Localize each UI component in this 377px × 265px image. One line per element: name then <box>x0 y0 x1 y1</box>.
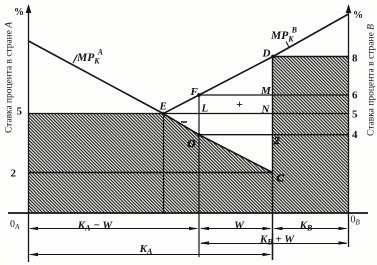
svg-text:KB + W: KB + W <box>259 234 295 247</box>
svg-text:F: F <box>190 86 199 98</box>
svg-text:%: % <box>353 10 363 21</box>
svg-text:C: C <box>277 173 285 185</box>
svg-text:M: M <box>260 85 272 97</box>
svg-text:O: O <box>188 138 196 150</box>
svg-text:D: D <box>262 48 271 60</box>
svg-text:KA − W: KA − W <box>77 219 114 232</box>
svg-text:+: + <box>236 97 243 111</box>
svg-text:2: 2 <box>273 135 280 147</box>
svg-text:L: L <box>201 103 209 115</box>
svg-text:8: 8 <box>352 53 358 65</box>
svg-text:4: 4 <box>352 129 358 141</box>
svg-text:N: N <box>261 103 271 115</box>
svg-text:5: 5 <box>17 106 23 118</box>
svg-text:E: E <box>159 101 167 113</box>
svg-text:2: 2 <box>11 168 17 180</box>
svg-text:Ставка процента в стране В: Ставка процента в стране В <box>366 23 376 136</box>
svg-text:W: W <box>234 219 245 231</box>
svg-text:5: 5 <box>352 109 358 121</box>
svg-text:Ставка процента в стране А: Ставка процента в стране А <box>4 21 14 133</box>
svg-text:%: % <box>14 7 24 18</box>
svg-text:6: 6 <box>352 90 358 102</box>
